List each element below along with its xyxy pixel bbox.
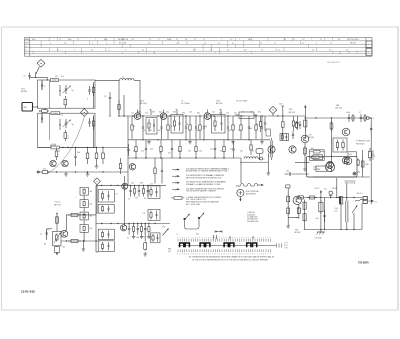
right cluster parts <box>368 148 375 161</box>
svg-text:b: b <box>25 50 26 52</box>
module label box <box>313 155 323 160</box>
svg-text:150: 150 <box>205 113 208 115</box>
connector bracket pair 4 <box>247 243 257 247</box>
svg-text:1.2: 1.2 <box>59 39 61 41</box>
connector bracket pair 1 <box>180 243 190 247</box>
svg-text:14: 14 <box>142 50 144 52</box>
coil L1 <box>120 78 135 80</box>
svg-text:BF 241: BF 241 <box>289 112 296 114</box>
inter-stage resistor <box>39 108 49 112</box>
table header dense text top-right <box>347 39 357 44</box>
svg-text:4: 4 <box>87 99 88 101</box>
svg-text:1 2 3: 1 2 3 <box>284 242 288 244</box>
legend list of codes <box>247 211 258 223</box>
IF transformer top stubs <box>150 110 221 116</box>
label below TS9 <box>295 229 301 234</box>
svg-text:12.5: 12.5 <box>131 39 134 41</box>
label box L14 <box>316 166 327 172</box>
detector transformer <box>280 134 289 141</box>
svg-text:7: 7 <box>95 39 96 41</box>
svg-text:88: 88 <box>284 39 286 41</box>
TS9 ground <box>287 224 289 226</box>
ground symbols mixer <box>64 164 98 176</box>
svg-text:1k: 1k <box>58 151 60 153</box>
resistor U1 lower <box>64 96 66 99</box>
aerial socket 300 ohm <box>22 103 33 112</box>
svg-text:BF 185: BF 185 <box>216 103 223 105</box>
IF ground row <box>147 140 264 144</box>
power box terminal <box>353 172 360 175</box>
svg-text:R44: R44 <box>168 248 171 250</box>
svg-text:56: 56 <box>144 198 146 200</box>
svg-text:31: 31 <box>261 50 263 52</box>
svg-text:1.2: 1.2 <box>77 39 79 41</box>
svg-text:MHz: MHz <box>104 39 108 41</box>
IF lower label row <box>133 149 254 155</box>
svg-text:L21: L21 <box>61 114 64 116</box>
tuner box U2 <box>38 113 96 147</box>
resistor on mixer rail <box>51 144 60 149</box>
svg-text:2k2: 2k2 <box>132 126 135 128</box>
svg-text:C60: C60 <box>297 207 300 209</box>
svg-text:21: 21 <box>320 39 322 41</box>
svg-text:470: 470 <box>335 211 338 213</box>
transistor TS5 audio pre <box>301 135 309 143</box>
tuner box U1 <box>38 80 96 108</box>
electrolytic cap in <box>329 191 335 197</box>
svg-text:E24 +-80 M OHM: E24 +-80 M OHM <box>186 204 200 206</box>
transformer box L12 <box>151 233 161 243</box>
svg-text:68: 68 <box>256 124 258 126</box>
svg-text:33p: 33p <box>166 111 169 113</box>
left column vertical <box>96 185 98 252</box>
volume resistor branch <box>319 198 323 231</box>
video comb labels <box>128 182 146 200</box>
output squiggle <box>355 199 363 201</box>
AGC ground stub <box>82 241 86 251</box>
svg-text:4: 4 <box>50 43 51 45</box>
transistor TS12 audio det <box>121 225 127 231</box>
svg-text:56: 56 <box>232 43 234 45</box>
labels mixer block <box>43 144 80 171</box>
audio rail <box>96 223 170 224</box>
svg-text:2: 2 <box>125 50 126 52</box>
svg-text:150: 150 <box>145 113 148 115</box>
feed wire with cap <box>285 171 309 176</box>
left bias chain <box>303 200 306 230</box>
transformer box L10 <box>148 184 160 199</box>
resistor 16ohm <box>335 197 343 231</box>
svg-text:31: 31 <box>312 50 314 52</box>
legend resistor row <box>171 196 222 206</box>
svg-text:n47: n47 <box>135 197 138 199</box>
svg-text:33p: 33p <box>258 111 261 113</box>
AGC feed vertical <box>56 213 59 232</box>
chain box 3 <box>80 212 88 220</box>
svg-text:4k7: 4k7 <box>168 153 171 155</box>
test probe right <box>192 213 204 230</box>
decoupling caps pair 1 <box>346 112 354 122</box>
transistor TS3a <box>50 160 56 166</box>
svg-text:100: 100 <box>150 149 153 151</box>
table row5 sparse marks <box>122 52 340 54</box>
IF bottom rail <box>128 157 241 183</box>
IF transformer L6 <box>171 115 183 134</box>
IF main rail <box>119 115 305 116</box>
svg-text:n5: n5 <box>143 130 145 132</box>
svg-text:P. PHILIPS C08: P. PHILIPS C08 <box>356 141 369 143</box>
svg-text:6.8: 6.8 <box>193 50 195 52</box>
svg-text:AFGESTEMD OP ZENDER GEMETEN ME: AFGESTEMD OP ZENDER GEMETEN MET VTVM <box>186 170 228 173</box>
svg-text:L8: L8 <box>116 194 118 196</box>
module transistor <box>327 161 334 168</box>
svg-text:31: 31 <box>57 50 59 52</box>
legend arrow row 1 <box>172 168 229 173</box>
svg-text:BF 185: BF 185 <box>140 103 147 105</box>
svg-text:+: + <box>286 186 287 188</box>
table row lines <box>25 41 373 54</box>
wire mixer lower rail <box>47 171 128 172</box>
wire coil to IF input <box>134 79 140 81</box>
transistor left low <box>129 164 135 170</box>
label TS24 BF194 <box>54 202 61 207</box>
svg-text:18: 18 <box>148 43 150 45</box>
variable capacitor U1 <box>59 85 73 96</box>
svg-text:100: 100 <box>240 151 243 153</box>
connector bracket pair 3 <box>224 243 234 247</box>
svg-text:8p2: 8p2 <box>159 111 162 113</box>
svg-text:220: 220 <box>220 151 223 153</box>
svg-text:1.2: 1.2 <box>149 39 151 41</box>
terminal diamond sync <box>94 178 101 185</box>
svg-text:150: 150 <box>226 113 229 115</box>
svg-text:13 61 612: 13 61 612 <box>21 290 35 294</box>
svg-text:220: 220 <box>43 169 46 171</box>
transistor demod b <box>289 146 296 153</box>
svg-text:1k: 1k <box>170 126 172 128</box>
demod long caps <box>271 138 272 160</box>
svg-text:2k2: 2k2 <box>234 113 237 115</box>
svg-text:7: 7 <box>221 39 222 41</box>
preamp emitter resistor <box>303 142 307 171</box>
arrow to speaker <box>369 200 378 204</box>
resistor R9 input <box>40 171 42 173</box>
bottom small labels <box>168 248 171 253</box>
svg-text:6.8: 6.8 <box>346 50 348 52</box>
label U1 ELC1043 <box>55 76 65 78</box>
svg-text:9.1: 9.1 <box>204 43 206 45</box>
svg-text:4: 4 <box>316 43 317 45</box>
chain wires <box>83 185 97 242</box>
svg-text:7: 7 <box>239 39 240 41</box>
table right end boxes <box>366 38 372 57</box>
svg-text:R33: R33 <box>140 182 143 184</box>
page edge right <box>397 27 399 310</box>
module transistor 2 <box>342 157 349 164</box>
svg-text:MHz: MHz <box>32 39 36 41</box>
svg-text:14: 14 <box>210 50 212 52</box>
svg-text:VOL: VOL <box>162 226 165 228</box>
svg-text:88: 88 <box>338 39 340 41</box>
svg-text:1n: 1n <box>24 75 26 77</box>
resistor R7 <box>96 148 98 154</box>
power amp module box <box>307 156 358 177</box>
left column box B <box>98 205 114 214</box>
left column box A <box>98 190 117 202</box>
supply rail right <box>305 117 371 118</box>
svg-text:L8 10.7 MHz: L8 10.7 MHz <box>236 100 247 102</box>
transistor TS3 IF2 <box>160 113 167 120</box>
strip note text <box>189 256 274 262</box>
IF transformer L5 <box>146 118 157 135</box>
video rail top <box>96 185 166 186</box>
speaker arrow <box>352 205 358 230</box>
IF comb components <box>131 116 263 139</box>
alignment table frame <box>25 38 373 57</box>
test probe left <box>184 214 192 230</box>
connector bracket pair 2 <box>200 243 210 247</box>
module label box 2 <box>348 152 357 157</box>
verticals below third rail <box>119 158 163 184</box>
table row2 text entries <box>50 43 332 45</box>
wire volume to amp <box>295 162 310 164</box>
svg-text:2611 A: 2611 A <box>350 182 356 185</box>
right branch terminal <box>286 185 290 224</box>
svg-text:C31: C31 <box>131 182 134 184</box>
resistor R6 <box>87 148 89 154</box>
svg-text:56: 56 <box>252 151 254 153</box>
svg-text:9.1: 9.1 <box>218 43 220 45</box>
svg-text:LE CIRCUIT EST REPRESENTE VU D: LE CIRCUIT EST REPRESENTE VU DU COTE DES… <box>192 259 269 261</box>
svg-text:C5: C5 <box>40 233 42 235</box>
svg-text:kHz: kHz <box>25 43 28 45</box>
page edge left <box>1 27 3 310</box>
svg-text:100: 100 <box>199 151 202 153</box>
resistor on U1 top edge <box>50 79 58 82</box>
U2 left parts <box>41 113 43 123</box>
svg-text:7: 7 <box>153 52 154 54</box>
feedback box <box>333 138 347 152</box>
svg-text:C49: C49 <box>286 171 289 173</box>
svg-text:7: 7 <box>215 52 216 54</box>
middle vertical <box>124 176 126 225</box>
label 12V rail tick <box>279 104 284 122</box>
svg-text:8p2: 8p2 <box>197 113 200 115</box>
resistor R8 <box>102 148 104 154</box>
page edge bottom <box>2 309 399 311</box>
svg-text:2k2: 2k2 <box>90 216 93 218</box>
connector strip upper ticks <box>177 237 270 241</box>
svg-text:3.4: 3.4 <box>302 39 304 41</box>
svg-text:4: 4 <box>106 43 107 45</box>
resistor on U2 top edge <box>51 112 63 117</box>
svg-text:7: 7 <box>311 39 312 41</box>
svg-text:47: 47 <box>194 39 196 41</box>
capacitor C1 1n <box>24 73 36 80</box>
svg-text:680: 680 <box>138 111 141 113</box>
svg-text:105: 105 <box>62 247 65 249</box>
IF transformer L7 <box>212 115 226 134</box>
left column box C <box>98 229 114 239</box>
extra IF out parts <box>292 116 298 131</box>
label TS6 BD115 <box>336 105 343 110</box>
svg-text:TS 2,4: TS 2,4 <box>54 202 61 204</box>
pointer curve <box>48 116 85 173</box>
inductor pickup squiggle <box>236 183 264 186</box>
IF comb labels <box>132 124 258 132</box>
svg-text:MHz: MHz <box>25 39 29 41</box>
coupling cap C44 <box>143 224 147 257</box>
transistor TS2 IF1 <box>134 113 141 120</box>
svg-text:100: 100 <box>149 130 152 132</box>
audio comb grounds <box>132 235 151 239</box>
transistor TS3b <box>62 160 68 166</box>
transistor TS7 driver2 <box>344 157 352 165</box>
svg-text:5p6: 5p6 <box>77 152 80 154</box>
svg-text:MHz: MHz <box>167 39 171 41</box>
svg-text:205 210 215: 205 210 215 <box>347 39 357 41</box>
upper bias wire <box>66 213 96 230</box>
svg-text:30.25 31.45: 30.25 31.45 <box>118 39 128 41</box>
svg-text:L10: L10 <box>150 184 153 186</box>
audio bottom rail <box>304 203 362 230</box>
svg-text:5u: 5u <box>127 238 129 240</box>
svg-text:6.8: 6.8 <box>244 50 246 52</box>
svg-text:4k7: 4k7 <box>158 130 161 132</box>
svg-text:a: a <box>176 50 177 52</box>
svg-text:1: 1 <box>122 52 123 54</box>
series resistor audio <box>307 197 309 199</box>
AGC rail <box>61 240 100 241</box>
bias parts left <box>295 121 301 129</box>
svg-text:a: a <box>108 50 109 52</box>
wire antenna to tuner <box>36 76 48 78</box>
capacitor at bus <box>104 92 111 117</box>
vertical bus from tuner <box>118 80 125 116</box>
svg-text:31: 31 <box>278 50 280 52</box>
svg-text:1k: 1k <box>238 130 240 132</box>
svg-text:SN 76533: SN 76533 <box>356 143 364 145</box>
svg-text:33p: 33p <box>182 113 185 115</box>
label electric aid <box>246 191 259 195</box>
svg-text:BF181: BF181 <box>21 91 28 93</box>
svg-text:8: 8 <box>374 156 375 158</box>
svg-text:10n: 10n <box>196 130 199 132</box>
left cap branch <box>40 229 52 240</box>
chassis ground audio <box>315 230 326 240</box>
svg-text:L: L <box>76 197 77 199</box>
resistor U2 lower <box>64 130 66 133</box>
page edge top <box>2 26 399 28</box>
svg-text:680: 680 <box>173 111 176 113</box>
svg-text:4 5 6: 4 5 6 <box>284 245 288 247</box>
svg-text:1.2: 1.2 <box>203 39 205 41</box>
dimension mark <box>215 230 222 233</box>
svg-text:560: 560 <box>366 164 369 166</box>
IF upper label row <box>131 111 261 114</box>
svg-text:87.5-104: 87.5-104 <box>119 43 126 45</box>
chain box 4 <box>80 225 88 233</box>
svg-text:1k5: 1k5 <box>90 228 93 230</box>
label TS5 BF241 <box>289 109 296 114</box>
svg-text:7Z0 8970: 7Z0 8970 <box>358 262 369 265</box>
svg-text:n22: n22 <box>212 111 215 113</box>
svg-text:TEN OPZICHTE VAN HET CHASSIS: TEN OPZICHTE VAN HET CHASSIS <box>186 190 216 193</box>
svg-text:ra: ra <box>177 233 179 236</box>
connector strip upward stubs <box>214 235 254 239</box>
amp bottom rail <box>313 176 370 178</box>
svg-text:3p: 3p <box>72 124 74 126</box>
transistor TS6 driver <box>342 128 350 136</box>
vertical branch TS6 <box>330 118 333 172</box>
NTC lower box <box>54 246 59 253</box>
svg-text:10k: 10k <box>90 203 93 205</box>
svg-text:L13: L13 <box>314 157 317 159</box>
svg-text:2k2: 2k2 <box>228 130 231 132</box>
svg-text:72: 72 <box>330 43 332 45</box>
capacitor C8 <box>75 148 77 157</box>
svg-text:72: 72 <box>260 43 262 45</box>
wire aerial diamond stem <box>36 67 40 74</box>
svg-text:L12: L12 <box>349 154 352 156</box>
svg-text:1n8: 1n8 <box>316 218 319 220</box>
svg-text:10n: 10n <box>188 151 191 153</box>
terminal arrow right <box>367 117 376 121</box>
svg-text:MET ELEKTRONISCHE VOLTMETER 10: MET ELEKTRONISCHE VOLTMETER 10 M <box>186 177 222 179</box>
svg-text:a: a <box>74 50 75 52</box>
svg-text:18: 18 <box>64 43 66 45</box>
terminal diamond aerial <box>37 59 45 67</box>
transistor TS11 video <box>122 183 128 189</box>
resistor R5 <box>56 148 58 152</box>
svg-text:56: 56 <box>159 153 161 155</box>
video comb parts <box>129 185 149 196</box>
module text <box>313 165 319 171</box>
NTC box <box>52 231 61 245</box>
transistor demod a <box>268 146 275 153</box>
left low parts <box>127 116 129 185</box>
volume potentiometer <box>162 226 169 235</box>
svg-text:BC148: BC148 <box>295 232 301 234</box>
transistor TS9 <box>293 196 301 204</box>
svg-text:2p: 2p <box>72 90 74 92</box>
table left label column <box>25 38 30 57</box>
svg-text:CA270: CA270 <box>313 168 319 171</box>
NTC ground <box>56 253 58 256</box>
svg-text:c: c <box>26 52 27 54</box>
left bias labels <box>297 207 300 219</box>
svg-text:21: 21 <box>176 39 178 41</box>
svg-text:305: 305 <box>196 234 199 236</box>
svg-text:100: 100 <box>204 126 207 128</box>
right vertical branch <box>370 118 372 204</box>
legend arrow row 3 <box>172 181 227 186</box>
preamp choke box <box>310 148 325 161</box>
svg-text:9.1: 9.1 <box>302 43 304 45</box>
IF second rail <box>128 139 270 140</box>
svg-text:C9: C9 <box>104 96 106 98</box>
supply vertical with arrow <box>304 105 306 139</box>
decoupling caps pair 2 <box>359 112 366 122</box>
svg-text:150: 150 <box>189 111 192 113</box>
wire tuner to coil <box>95 79 120 81</box>
labels lower-left <box>44 229 65 248</box>
supply arrow up <box>320 190 322 198</box>
audio comb labels <box>127 236 145 239</box>
legend arrow row 4 <box>172 187 225 192</box>
svg-text:10n: 10n <box>210 149 213 151</box>
TS9 emitter resistor <box>288 205 300 218</box>
